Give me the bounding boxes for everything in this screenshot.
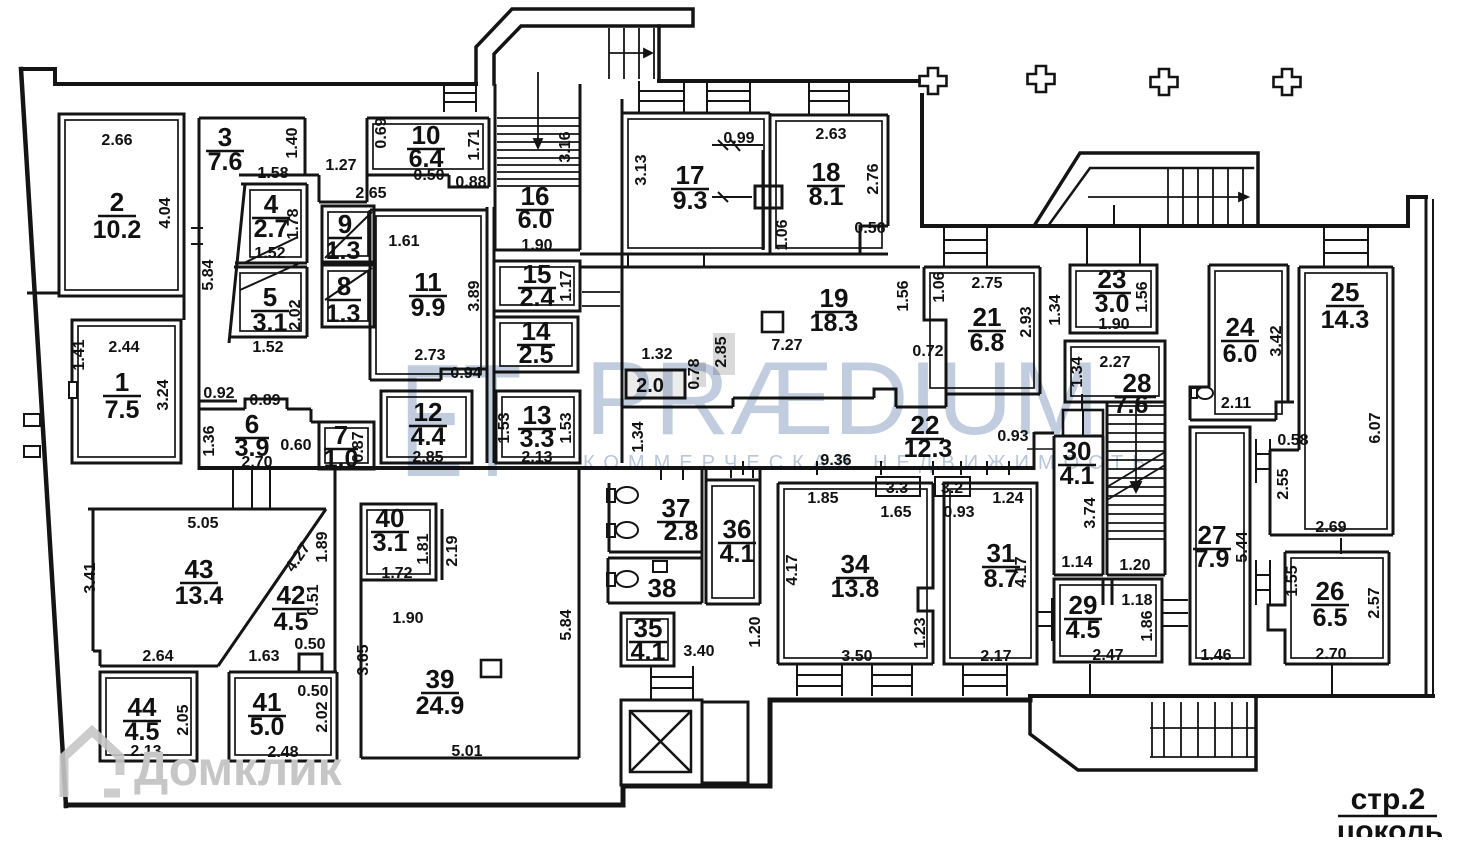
svg-text:1.71: 1.71 [466, 129, 483, 160]
gray artifact boxes [713, 333, 735, 375]
room 21 [924, 267, 1040, 394]
window 31/29 [1037, 598, 1052, 641]
svg-text:4.1: 4.1 [720, 540, 755, 568]
svg-text:3.2: 3.2 [941, 480, 963, 497]
svg-text:43: 43 [185, 554, 214, 584]
room 13 [496, 391, 580, 463]
room 19 bottom wall [622, 389, 946, 407]
diagonals doors rooms 4/5/9/8 [240, 212, 372, 300]
right tower stair risers [1088, 168, 1248, 226]
room 40 [361, 504, 436, 580]
room 44 [100, 672, 197, 761]
svg-text:4.17: 4.17 [1013, 556, 1030, 587]
svg-text:3.16: 3.16 [557, 131, 574, 162]
svg-text:14.3: 14.3 [1321, 306, 1370, 334]
flue box rooms 17/18 [755, 186, 782, 208]
svg-text:3.74: 3.74 [1082, 497, 1099, 528]
svg-text:4.1: 4.1 [631, 638, 666, 666]
elevator shaft 2 [702, 702, 748, 783]
room 19 top wall [580, 266, 920, 269]
svg-text:2.4: 2.4 [520, 284, 555, 312]
shafts below corridor to room 43 [233, 468, 270, 509]
svg-text:13.4: 13.4 [175, 582, 224, 610]
inner outlines (double-line wall style) [65, 119, 1387, 755]
svg-text:5.05: 5.05 [187, 515, 218, 532]
svg-text:КОММЕРЧЕСКАЯ НЕДВИЖИМОСТЬ: КОММЕРЧЕСКАЯ НЕДВИЖИМОСТЬ [583, 452, 1154, 474]
window band left of tower [444, 84, 476, 112]
svg-text:0.92: 0.92 [203, 385, 234, 402]
svg-text:1.14: 1.14 [1061, 554, 1092, 571]
svg-text:3.42: 3.42 [1268, 325, 1285, 356]
room 41 [229, 672, 337, 761]
ticks on corridor wall [743, 461, 1009, 475]
room 37 [609, 470, 702, 603]
toilet room 24 [1191, 388, 1197, 398]
svg-text:3.1: 3.1 [373, 529, 408, 557]
svg-text:2.70: 2.70 [1315, 646, 1346, 663]
wall joining outer to room2 [27, 292, 59, 295]
bottom right external stair outline [1030, 696, 1256, 770]
svg-text:1.78: 1.78 [285, 208, 302, 239]
tick room 26 top [1340, 538, 1342, 554]
main vertical wall left [198, 118, 201, 470]
svg-text:1.81: 1.81 [415, 533, 432, 564]
main stairwell treads [1107, 406, 1165, 539]
wire bottom outer wall right section [1030, 694, 1433, 698]
svg-text:1.72: 1.72 [381, 565, 412, 582]
svg-text:Домклик: Домклик [134, 743, 343, 796]
svg-text:0.60: 0.60 [280, 437, 311, 454]
svg-text:3.65: 3.65 [355, 644, 372, 675]
svg-text:3.0: 3.0 [1095, 290, 1130, 318]
svg-text:31: 31 [987, 538, 1016, 568]
svg-text:5.01: 5.01 [451, 743, 482, 760]
svg-text:17: 17 [676, 160, 705, 190]
svg-text:8.1: 8.1 [809, 183, 844, 211]
door rungs corridor strip [582, 292, 620, 306]
rooms 4/5 block slanted left edge [229, 184, 245, 343]
room 14 [494, 317, 578, 372]
svg-text:18.3: 18.3 [810, 309, 859, 337]
window above room 25 [1324, 226, 1368, 267]
svg-text:1.53: 1.53 [558, 412, 575, 443]
ticks below rooms bottom right [1090, 664, 1332, 696]
right outer wall double [1425, 197, 1428, 696]
window 27/26 [1256, 560, 1270, 605]
corridor walls x487/494 [487, 207, 494, 463]
room 23 [1070, 265, 1157, 333]
svg-text:2.63: 2.63 [815, 126, 846, 143]
svg-text:1.89: 1.89 [314, 531, 331, 562]
svg-text:1.90: 1.90 [521, 237, 552, 254]
svg-text:1.90: 1.90 [392, 610, 423, 627]
svg-text:38: 38 [648, 573, 677, 603]
svg-text:2.57: 2.57 [1366, 587, 1383, 618]
corridor long wall [199, 466, 1034, 470]
svg-text:2.8: 2.8 [664, 518, 699, 546]
svg-text:3.3: 3.3 [886, 480, 908, 497]
room 18 [770, 115, 888, 254]
svg-text:24: 24 [1226, 312, 1255, 342]
wire bottom outer wall left [66, 700, 1030, 805]
svg-text:цоколь: цоколь [1337, 815, 1443, 837]
room 38 [608, 558, 702, 603]
svg-text:3.24: 3.24 [155, 379, 172, 410]
svg-text:PRÆDIUM: PRÆDIUM [585, 341, 1099, 457]
svg-text:2.65: 2.65 [355, 185, 386, 202]
room 2 [59, 114, 184, 296]
wall between room1 and room2 right [183, 296, 186, 320]
svg-text:1.3: 1.3 [326, 237, 361, 265]
room 1 left notch [69, 382, 77, 398]
svg-text:7.5: 7.5 [105, 396, 140, 424]
svg-text:1.34: 1.34 [1047, 294, 1064, 325]
room 12 [381, 391, 472, 463]
svg-text:7.9: 7.9 [1195, 545, 1230, 573]
room 28 [1065, 341, 1165, 402]
room 36 [706, 470, 760, 604]
svg-text:1.55: 1.55 [1284, 565, 1301, 596]
svg-text:0.50: 0.50 [413, 167, 444, 184]
svg-text:0.58: 0.58 [1277, 432, 1308, 449]
svg-text:3.40: 3.40 [683, 643, 714, 660]
room 25 [1270, 267, 1393, 535]
room 27 [1190, 427, 1250, 664]
svg-text:4.04: 4.04 [157, 197, 174, 228]
svg-text:0.87: 0.87 [350, 431, 367, 462]
svg-text:42: 42 [277, 580, 306, 610]
small box 0.50 [299, 654, 322, 672]
svg-text:1.36: 1.36 [201, 425, 218, 456]
svg-text:1.52: 1.52 [252, 339, 283, 356]
svg-text:1.40: 1.40 [284, 127, 301, 158]
room 35 [621, 613, 674, 666]
svg-text:1.06: 1.06 [931, 271, 948, 302]
svg-text:1.61: 1.61 [388, 233, 419, 250]
room 10 [367, 118, 489, 202]
svg-text:2.17: 2.17 [980, 648, 1011, 665]
svg-text:6.0: 6.0 [518, 206, 553, 234]
room 39 [361, 470, 579, 758]
svg-text:1.63: 1.63 [248, 648, 279, 665]
svg-text:11: 11 [414, 267, 442, 297]
windows top wall rooms 17/18 [639, 81, 684, 113]
room 9 [322, 206, 374, 262]
windows below rooms 34/31 [797, 664, 842, 696]
rooms 34 [778, 483, 933, 664]
svg-text:1.56: 1.56 [1134, 281, 1151, 312]
toilet symbols room 37 [607, 489, 615, 502]
svg-text:1.27: 1.27 [325, 157, 356, 174]
svg-text:1.3: 1.3 [326, 300, 361, 328]
elevator inner with X [630, 711, 691, 772]
svg-text:5.0: 5.0 [250, 713, 285, 741]
svg-text:4.5: 4.5 [1066, 616, 1101, 644]
svg-text:2.11: 2.11 [1221, 395, 1251, 412]
room 26 [1268, 552, 1389, 664]
room 33 box [876, 477, 920, 496]
svg-text:0.88: 0.88 [455, 174, 486, 191]
bottom right external stair treads [1150, 702, 1256, 757]
svg-text:4.17: 4.17 [784, 554, 801, 585]
svg-text:4.5: 4.5 [274, 608, 309, 636]
svg-text:26: 26 [1316, 576, 1345, 606]
svg-text:2.44: 2.44 [108, 339, 139, 356]
wall below cross1 [920, 95, 924, 226]
svg-text:2.66: 2.66 [101, 132, 132, 149]
svg-text:7.6: 7.6 [208, 148, 243, 176]
svg-text:3.1: 3.1 [253, 309, 288, 337]
window 29/27 [1162, 600, 1188, 626]
svg-text:1.52: 1.52 [254, 245, 285, 262]
svg-text:2.55: 2.55 [1275, 468, 1292, 499]
svg-text:2.05: 2.05 [175, 704, 192, 735]
svg-text:1.17: 1.17 [558, 270, 575, 301]
left wall stubs [24, 414, 40, 426]
svg-text:2.69: 2.69 [1315, 519, 1346, 536]
shafts above room 23 [1087, 205, 1140, 265]
column room 39 [481, 660, 501, 677]
svg-text:2.64: 2.64 [142, 648, 173, 665]
svg-text:2.02: 2.02 [287, 299, 304, 330]
right stair tower outline [1034, 153, 1258, 226]
room 29 [1054, 579, 1162, 662]
svg-text:6.0: 6.0 [1223, 340, 1258, 368]
svg-text:9.3: 9.3 [673, 187, 708, 215]
str2 label [1337, 783, 1443, 842]
svg-text:0.89: 0.89 [249, 392, 280, 409]
svg-text:2.02: 2.02 [314, 701, 331, 732]
wire top wall right section [922, 197, 1426, 226]
svg-text:6.07: 6.07 [1367, 412, 1384, 443]
stair tower top outline [476, 9, 693, 84]
svg-text:2.75: 2.75 [971, 275, 1002, 292]
svg-text:3.50: 3.50 [841, 648, 872, 665]
svg-text:1.90: 1.90 [1098, 316, 1129, 333]
column room 19 [762, 312, 783, 332]
room 3 [199, 118, 367, 202]
svg-text:7.6: 7.6 [1114, 391, 1149, 419]
svg-text:2.93: 2.93 [1018, 306, 1035, 337]
svg-text:2.47: 2.47 [1092, 647, 1123, 664]
svg-text:1.18: 1.18 [1121, 592, 1152, 609]
svg-text:стр.2: стр.2 [1351, 783, 1426, 816]
svg-text:4.5: 4.5 [125, 718, 160, 746]
svg-text:0.99: 0.99 [723, 130, 754, 147]
svg-text:13.8: 13.8 [831, 575, 880, 603]
room 30 [1054, 436, 1103, 575]
svg-text:5.44: 5.44 [1234, 531, 1251, 562]
room 8 [322, 265, 374, 327]
svg-text:5: 5 [263, 282, 277, 312]
room 5 [229, 267, 307, 337]
svg-text:2.70: 2.70 [241, 454, 272, 471]
svg-text:5.84: 5.84 [558, 609, 575, 640]
svg-text:1.86: 1.86 [1139, 610, 1156, 641]
toilet symbol room 38 [607, 573, 615, 586]
room 16 stair walls [495, 84, 580, 250]
svg-text:1.24: 1.24 [992, 490, 1023, 507]
svg-text:10.2: 10.2 [93, 216, 142, 244]
stairwell walls [1107, 402, 1165, 575]
svg-text:5.84: 5.84 [200, 259, 217, 290]
outer boundary left section [21, 69, 476, 84]
svg-text:24.9: 24.9 [416, 692, 465, 720]
wire top wall right of tower [659, 79, 919, 83]
room 32 box [935, 477, 970, 496]
svg-text:3.13: 3.13 [633, 154, 650, 185]
svg-text:1.58: 1.58 [257, 165, 288, 182]
flue marks room 17 [712, 139, 763, 202]
domklik watermark [64, 731, 120, 797]
elevator outer [621, 700, 702, 785]
svg-text:0.50: 0.50 [294, 636, 325, 653]
svg-text:1: 1 [115, 367, 129, 397]
svg-text:2.13: 2.13 [521, 449, 552, 466]
svg-text:3.41: 3.41 [82, 562, 99, 593]
svg-text:3.89: 3.89 [466, 280, 483, 311]
svg-text:9: 9 [338, 209, 352, 239]
svg-text:25: 25 [1331, 277, 1360, 307]
wire left outer slanted wall [21, 69, 66, 806]
room 1 [72, 320, 181, 463]
room 17 [580, 99, 888, 463]
svg-text:1.65: 1.65 [880, 504, 911, 521]
svg-text:ET: ET [400, 331, 522, 511]
room 43 [88, 509, 326, 666]
room 42 right edge [334, 470, 337, 672]
svg-text:1.46: 1.46 [1200, 647, 1231, 664]
svg-text:2.76: 2.76 [865, 163, 882, 194]
svg-text:0.50: 0.50 [297, 683, 328, 700]
room 6 [200, 399, 319, 422]
room 7 [319, 422, 374, 469]
room 20 [626, 370, 685, 398]
svg-text:0.93: 0.93 [943, 504, 974, 521]
svg-text:1.56: 1.56 [895, 280, 912, 311]
window shaft below room 17 [628, 254, 704, 267]
svg-text:2.5: 2.5 [519, 341, 554, 369]
svg-text:2.7: 2.7 [254, 215, 289, 243]
svg-text:1.20: 1.20 [1119, 557, 1150, 574]
svg-text:1.23: 1.23 [912, 617, 929, 648]
window 0.58 [1256, 439, 1270, 483]
room 24 [1190, 265, 1294, 420]
window below room 35 [651, 666, 693, 700]
svg-text:0.51: 0.51 [305, 584, 322, 615]
window shaft above room 21 [944, 226, 987, 267]
svg-text:0.69: 0.69 [373, 117, 390, 148]
room 11 [370, 210, 487, 380]
room 15 [494, 261, 580, 311]
svg-text:39: 39 [426, 664, 455, 694]
svg-text:1.41: 1.41 [71, 339, 88, 370]
svg-text:6.5: 6.5 [1313, 604, 1348, 632]
svg-text:2: 2 [110, 187, 124, 217]
tower stair risers [609, 28, 654, 79]
svg-text:2.19: 2.19 [444, 535, 461, 566]
room 4 [235, 184, 307, 263]
ticks wall room2/3 [191, 228, 203, 244]
room 31 [944, 483, 1037, 664]
svg-text:9.9: 9.9 [411, 294, 446, 322]
svg-text:21: 21 [973, 302, 1002, 332]
svg-text:1.20: 1.20 [747, 616, 764, 647]
svg-text:1.85: 1.85 [807, 490, 838, 507]
stair 16 treads [497, 118, 579, 186]
svg-text:1.06: 1.06 [774, 219, 791, 250]
svg-text:0.56: 0.56 [854, 220, 885, 237]
door shafts below corridor near room 20 [661, 468, 753, 480]
svg-text:8: 8 [337, 271, 351, 301]
